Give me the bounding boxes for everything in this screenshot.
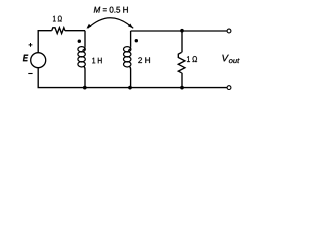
voltage source E circle <box>31 53 46 68</box>
label − polarity of source <box>28 73 32 75</box>
junction dot bottom of R2 <box>180 86 184 90</box>
label Vout (V) <box>222 55 228 62</box>
output terminal top (open circle) <box>227 29 231 33</box>
mutual inductance arrow arc <box>88 18 134 29</box>
label Vout subscript (out) <box>229 58 240 63</box>
label 1 H <box>92 58 101 64</box>
resistor R2 vertical leads <box>181 31 183 88</box>
polarity dot of L1 <box>78 40 81 43</box>
arrowhead left of mutual arrow <box>87 24 92 29</box>
label + polarity of source <box>29 43 33 47</box>
wire: left rail top segment and top wire to R1 <box>38 31 52 53</box>
label E <box>23 55 28 62</box>
label M = 0.5 H <box>94 7 128 13</box>
arrowhead right of mutual arrow <box>128 24 133 29</box>
wire: top wire from R1 to L1 corner <box>65 30 85 32</box>
resistor R1 zigzag <box>52 28 65 34</box>
junction dot at top of R2 <box>180 29 184 33</box>
label 1 Ω for R2 <box>187 56 197 62</box>
output terminal bottom (open circle) <box>227 86 231 90</box>
inductor L1 (1 H) <box>84 31 86 47</box>
polarity dot of L2 <box>135 39 138 42</box>
junction dot bottom of L2 <box>128 86 132 90</box>
junction dot bottom of L1 <box>83 86 87 90</box>
wire: left rail bottom segment and bottom wire <box>38 68 227 88</box>
resistor R2 zigzag <box>178 52 185 72</box>
wire: top right from L2 to output terminal <box>131 30 228 32</box>
label 2 H <box>138 57 150 63</box>
inductor L2 (2 H) <box>130 31 132 47</box>
label 1 Ω for R1 <box>53 16 62 22</box>
